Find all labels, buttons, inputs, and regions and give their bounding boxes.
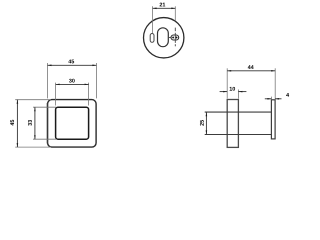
dimension 30 top: dimension line with arrows — [56, 83, 89, 85]
dimension 45 left: extension lines — [15, 99, 51, 101]
front view: hook plate square — [56, 107, 89, 139]
dimension 45 top: extension lines — [47, 63, 49, 98]
front view: rosette left edge highlight line — [46, 103, 48, 144]
top view: center oblong hole — [158, 28, 169, 47]
dimension 4: dimension line with outside arrows — [265, 98, 272, 100]
top view: small pill hole — [150, 34, 154, 43]
side view: hook plate rectangle — [271, 100, 275, 139]
dimension 10: extension line right — [237, 90, 239, 99]
dimension 45 left: dimension line with arrows — [16, 100, 18, 147]
dimension 30 top: extension lines — [55, 83, 57, 106]
side view: rosette section rectangle — [227, 100, 238, 148]
dimension 44: extension lines — [226, 68, 228, 98]
dimension 10: dimension line with outside arrows — [220, 91, 228, 93]
dimension 21: extension lines — [152, 6, 154, 33]
top view: screw slot — [171, 35, 179, 40]
dimension 45 top: dimension line with arrows — [48, 64, 97, 66]
dimension 44: dimension line with arrows — [227, 70, 275, 72]
top view: screw slot dots — [172, 37, 174, 39]
dimension 21: dimension line with arrows — [153, 7, 176, 9]
dimension 33 left: dimension line with arrows — [34, 107, 36, 139]
side view: neck top line — [205, 111, 272, 113]
top view: screw vertical centerline dashes — [174, 28, 176, 32]
top view: round rosette circle — [144, 18, 184, 58]
top view: screw horizontal centerline segment — [169, 37, 171, 39]
side view: neck bottom line — [205, 134, 272, 136]
dimension 4: extension line left — [270, 97, 272, 100]
dimension 33 left: extension lines — [33, 106, 56, 108]
front view: rosette square outline — [48, 100, 97, 148]
dimension 25 left of side view: dimension line with arrows — [205, 112, 207, 134]
